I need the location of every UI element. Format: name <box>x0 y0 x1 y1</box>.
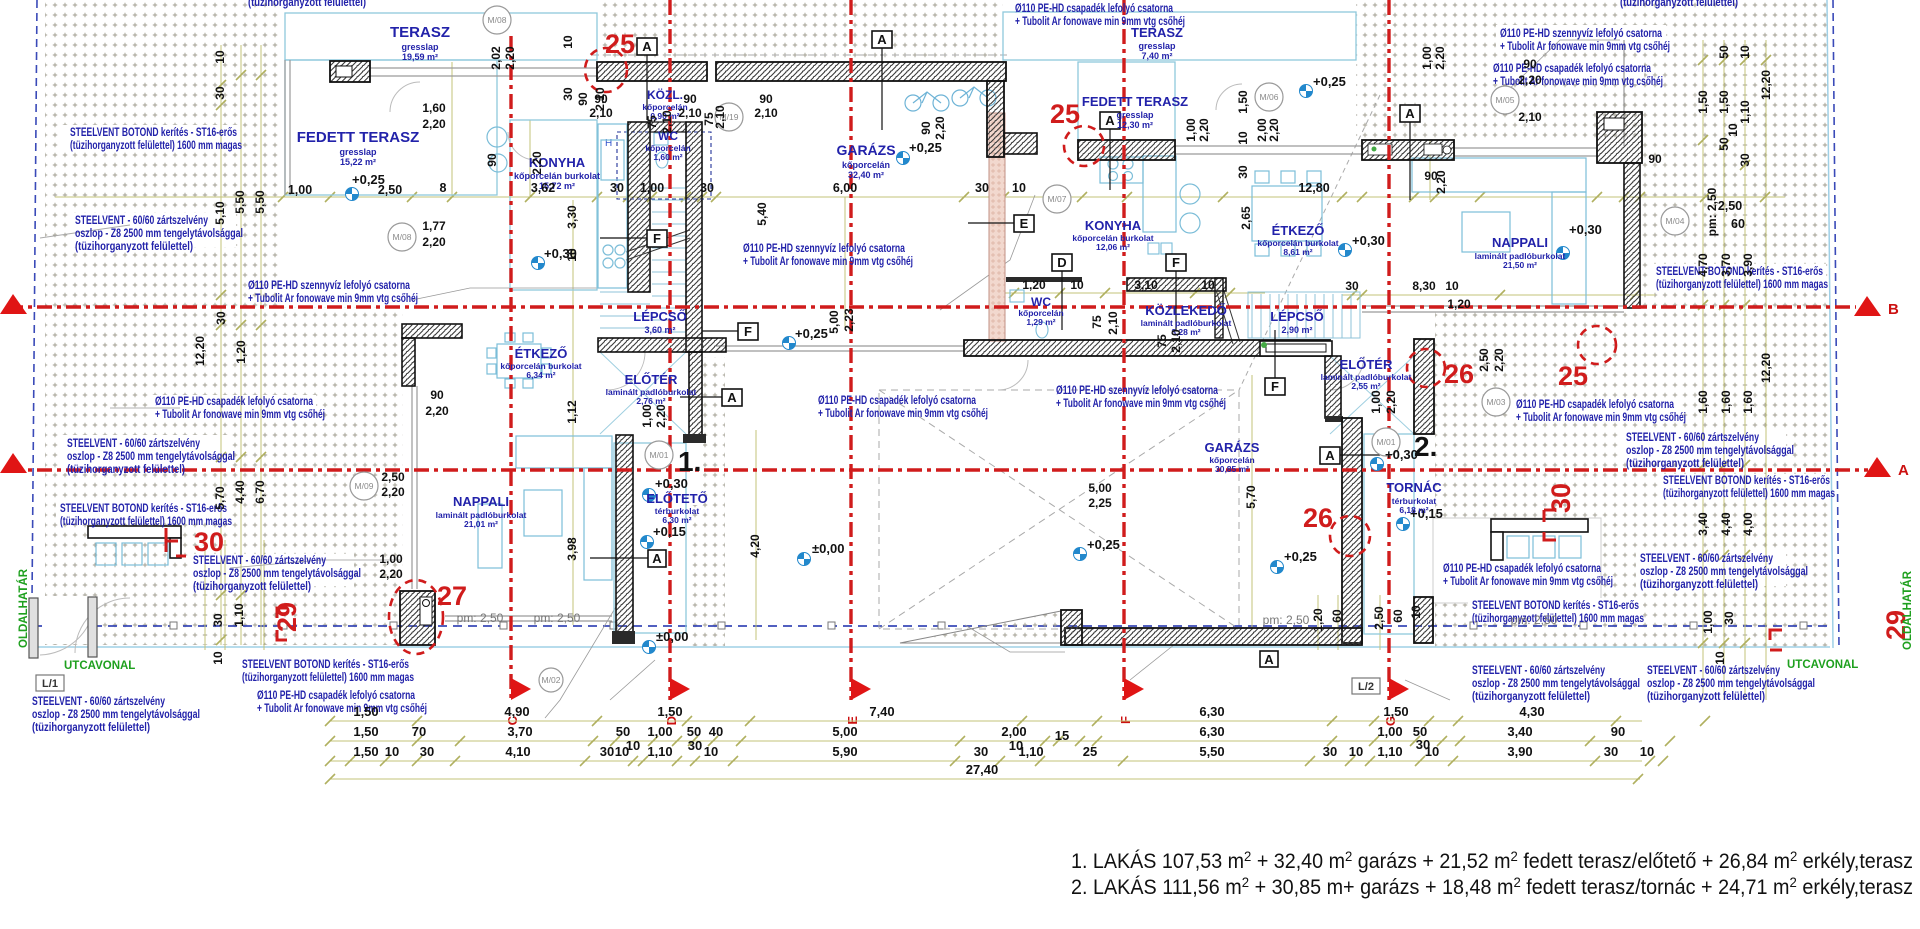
svg-text:B: B <box>1888 301 1899 318</box>
svg-text:+0,15: +0,15 <box>653 524 686 539</box>
svg-text:15,22 m²: 15,22 m² <box>340 157 376 167</box>
svg-text:3,98: 3,98 <box>565 537 579 561</box>
svg-text:2,10: 2,10 <box>660 110 674 134</box>
svg-text:90: 90 <box>683 92 697 106</box>
svg-text:2,10: 2,10 <box>678 106 702 120</box>
svg-text:oszlop - Z8 2500 mm tengelytáv: oszlop - Z8 2500 mm tengelytávolsággal <box>1626 445 1794 457</box>
svg-text:M/05: M/05 <box>1496 95 1515 105</box>
wall elöter1 north <box>598 338 726 352</box>
svg-text:3,70: 3,70 <box>507 724 532 739</box>
svg-text:90: 90 <box>759 92 773 106</box>
svg-text:10: 10 <box>1349 744 1363 759</box>
svg-text:Ø110 PE-HD csapadék lefolyó cs: Ø110 PE-HD csapadék lefolyó csatorna <box>818 395 976 407</box>
fedett terasz 1 outline <box>285 60 497 195</box>
property boundary right (blue dashed) <box>1833 0 1839 648</box>
svg-text:6,00: 6,00 <box>833 181 857 195</box>
window glazing thin lines <box>285 40 1624 621</box>
svg-text:90: 90 <box>594 92 608 106</box>
white patch text right6 <box>1636 552 1786 586</box>
svg-text:D: D <box>1057 255 1066 270</box>
stair 1 break lines <box>626 230 690 260</box>
svg-text:30: 30 <box>975 181 989 195</box>
marker circle M/04 <box>1661 207 1689 235</box>
svg-text:10: 10 <box>704 744 718 759</box>
svg-text:L/2: L/2 <box>1358 681 1374 693</box>
white patch text left2 <box>68 213 236 247</box>
svg-text:8,30: 8,30 <box>1412 279 1436 293</box>
svg-text:5,00: 5,00 <box>1088 481 1112 495</box>
detail circle 27 <box>389 580 443 654</box>
svg-text:M/08: M/08 <box>488 15 507 25</box>
svg-text:L/1: L/1 <box>42 678 58 690</box>
svg-text:Ø110 PE-HD szennyvíz lefolyó c: Ø110 PE-HD szennyvíz lefolyó csatorna <box>743 243 905 255</box>
svg-text:10: 10 <box>1640 744 1654 759</box>
svg-text:10: 10 <box>211 651 225 665</box>
white patch text left4 <box>62 435 228 473</box>
stair 2 break lines <box>1216 288 1240 344</box>
svg-text:3,40: 3,40 <box>1696 512 1710 536</box>
svg-text:30: 30 <box>1738 153 1752 167</box>
level value texts <box>352 74 1602 644</box>
svg-text:2,20: 2,20 <box>530 151 544 175</box>
svg-text:10: 10 <box>1012 181 1026 195</box>
svg-text:1,50: 1,50 <box>353 704 378 719</box>
room LÉPCSŐ1 <box>633 309 686 335</box>
svg-text:ELŐTÉR: ELŐTÉR <box>625 372 678 387</box>
svg-text:2,20: 2,20 <box>381 485 405 499</box>
note rain left <box>155 396 325 421</box>
svg-text:30: 30 <box>1236 165 1250 179</box>
svg-text:1,29 m²: 1,29 m² <box>1026 317 1055 327</box>
svg-text:pm: 2,50: pm: 2,50 <box>1705 187 1719 236</box>
svg-text:3,40: 3,40 <box>1507 724 1532 739</box>
furniture unit2 bath washers <box>1010 243 1172 338</box>
wall stair east <box>686 122 702 352</box>
white patch text right4 <box>1622 430 1786 462</box>
room WC2 <box>1018 295 1063 327</box>
svg-text:(tüzihorganyzott felülettel) 1: (tüzihorganyzott felülettel) 1600 mm mag… <box>60 516 232 528</box>
white patch text right7 <box>1468 598 1643 622</box>
window fedett terasz1 west <box>285 60 290 195</box>
konyha1 boundary <box>510 120 597 290</box>
wall wc2 partition <box>1006 277 1082 282</box>
window nappali2 top <box>1175 146 1362 154</box>
furniture unit1 wc <box>654 133 668 168</box>
svg-text:90: 90 <box>919 121 933 135</box>
right vertical dim chain <box>1702 40 1704 700</box>
svg-text:2,20: 2,20 <box>1384 390 1398 414</box>
svg-text:1,60: 1,60 <box>1696 390 1710 414</box>
svg-text:F: F <box>653 231 661 246</box>
svg-text:STEELVENT BOTOND kerítés - ST1: STEELVENT BOTOND kerítés - ST16-erős <box>70 127 237 139</box>
svg-text:1,50: 1,50 <box>353 744 378 759</box>
level marker symbols <box>346 188 359 201</box>
svg-text:F: F <box>744 324 752 339</box>
svg-text:2,10: 2,10 <box>713 105 727 129</box>
room WC1 <box>645 129 690 162</box>
svg-text:Ø110 PE-HD csapadék lefolyó cs: Ø110 PE-HD csapadék lefolyó csatorna <box>1443 563 1601 575</box>
svg-text:30: 30 <box>1345 279 1359 293</box>
box F unit2b <box>1265 330 1285 395</box>
marker circle M/03 <box>1482 388 1510 416</box>
box F stair1 <box>600 230 667 247</box>
note post right mid <box>1626 432 1794 470</box>
svg-text:oszlop - Z8 2500 mm tengelytáv: oszlop - Z8 2500 mm tengelytávolsággal <box>1640 566 1808 578</box>
svg-text:1,00: 1,00 <box>647 724 672 739</box>
svg-text:2,50: 2,50 <box>378 183 402 197</box>
svg-text:30: 30 <box>1546 483 1576 513</box>
note post bottom-left <box>32 696 200 734</box>
svg-text:M/01: M/01 <box>650 450 669 460</box>
svg-text:5,70: 5,70 <box>1244 485 1258 509</box>
svg-text:1,20: 1,20 <box>1022 278 1046 292</box>
street side boundary wall blocks <box>29 597 97 658</box>
svg-text:1,12: 1,12 <box>565 400 579 424</box>
marker circle M/09 <box>350 472 378 500</box>
svg-text:2,20: 2,20 <box>1518 73 1542 87</box>
svg-text:4,00: 4,00 <box>1741 512 1755 536</box>
svg-text:OLDALHATÁR: OLDALHATÁR <box>17 568 30 648</box>
left vertical dim chain <box>220 45 222 645</box>
svg-text:1,00: 1,00 <box>640 181 664 195</box>
room ÉTKEZŐ1 <box>500 346 581 380</box>
svg-text:kőporcelán burkolat: kőporcelán burkolat <box>514 171 600 181</box>
svg-text:STEELVENT - 60/60 zártszelvény: STEELVENT - 60/60 zártszelvény <box>193 555 326 567</box>
svg-text:1,00: 1,00 <box>379 552 403 566</box>
svg-text:M/06: M/06 <box>1260 92 1279 102</box>
note fence right A <box>1663 475 1835 500</box>
room GARÁZS1 <box>836 142 895 180</box>
svg-text:1,60: 1,60 <box>1741 390 1755 414</box>
svg-text:1,60: 1,60 <box>1719 390 1733 414</box>
svg-text:TORNÁC: TORNÁC <box>1386 480 1442 495</box>
note rain right upper <box>1493 63 1663 88</box>
svg-text:(tüzihorganyzott felülettel) 1: (tüzihorganyzott felülettel) 1600 mm mag… <box>1472 613 1644 625</box>
note rain mid1 <box>818 395 988 420</box>
street edge line bottom (light blue) <box>33 646 1830 648</box>
svg-text:pm: 2,50: pm: 2,50 <box>1263 613 1310 627</box>
note sewer mid1 <box>743 243 913 268</box>
svg-text:6,30: 6,30 <box>1199 704 1224 719</box>
box A mid1 <box>1100 112 1120 190</box>
note sewer top right <box>1500 28 1670 53</box>
note post left low <box>193 555 361 593</box>
room KONYHA2 <box>1072 218 1153 252</box>
svg-text:2,90 m²: 2,90 m² <box>1281 325 1312 335</box>
note sewer left <box>248 280 418 305</box>
furniture unit1 etkezö table <box>487 333 551 388</box>
wall step at party top <box>1004 133 1037 154</box>
svg-text:M/08: M/08 <box>393 232 412 242</box>
svg-text:5,00: 5,00 <box>827 310 841 334</box>
elöter 2 window cross <box>1330 356 1414 434</box>
svg-text:30,85 m²: 30,85 m² <box>1215 464 1249 474</box>
entry door detail unit2 <box>1260 341 1332 356</box>
svg-text:30: 30 <box>214 311 228 325</box>
svg-text:oszlop - Z8 2500 mm tengelytáv: oszlop - Z8 2500 mm tengelytávolsággal <box>1472 678 1640 690</box>
svg-text:1,60 m²: 1,60 m² <box>653 152 682 162</box>
svg-text:M/09: M/09 <box>355 481 374 491</box>
svg-text:M/02: M/02 <box>542 675 561 685</box>
svg-text:2,20: 2,20 <box>933 116 947 140</box>
svg-text:pm: 2,50: pm: 2,50 <box>534 611 581 625</box>
svg-text:3,62: 3,62 <box>531 181 555 195</box>
svg-text:2,20: 2,20 <box>1197 118 1211 142</box>
planter left seats <box>96 543 168 565</box>
svg-text:oszlop - Z8 2500 mm tengelytáv: oszlop - Z8 2500 mm tengelytávolsággal <box>75 228 243 240</box>
svg-text:40: 40 <box>709 724 723 739</box>
svg-text:A: A <box>877 32 887 47</box>
box A right <box>1400 105 1420 200</box>
section line F vertical <box>1122 0 1125 700</box>
svg-text:+0,30: +0,30 <box>1569 222 1602 237</box>
svg-text:10: 10 <box>213 50 227 64</box>
svg-text:2,10: 2,10 <box>754 106 778 120</box>
note post left mid <box>67 438 235 476</box>
svg-text:1,50: 1,50 <box>1717 90 1731 114</box>
svg-text:(tüzihorganyzott felülettel): (tüzihorganyzott felülettel) <box>67 464 185 476</box>
terrain right lower block <box>1435 310 1828 648</box>
svg-text:2,20: 2,20 <box>1434 170 1448 194</box>
svg-text:+ Tubolit Ar fonowave min 9mm: + Tubolit Ar fonowave min 9mm vtg csőhéj <box>818 408 988 420</box>
svg-text:GARÁZS: GARÁZS <box>836 142 895 158</box>
svg-text:3,90: 3,90 <box>1507 744 1532 759</box>
svg-text:Ø110 PE-HD csapadék lefolyó cs: Ø110 PE-HD csapadék lefolyó csatorna <box>1015 3 1173 15</box>
box A garage2 <box>1260 651 1278 667</box>
marker circle M/06 <box>1255 83 1283 111</box>
white patch text right2 <box>1492 62 1644 84</box>
svg-text:12,20: 12,20 <box>193 336 207 366</box>
svg-text:+ Tubolit Ar fonowave min 9mm: + Tubolit Ar fonowave min 9mm vtg csőhéj <box>155 409 325 421</box>
gray helper dashed lines <box>40 55 1380 629</box>
furniture unit1 kitchen counter <box>598 124 627 288</box>
svg-text:oszlop - Z8 2500 mm tengelytáv: oszlop - Z8 2500 mm tengelytávolsággal <box>32 709 200 721</box>
terasz 2 outline <box>1003 12 1356 60</box>
green site texts <box>17 568 1914 672</box>
svg-text:A: A <box>1898 462 1909 479</box>
window nappali1 west <box>412 386 417 589</box>
svg-text:8: 8 <box>440 181 447 195</box>
svg-text:(tüzihorganyzott felülettel): (tüzihorganyzott felülettel) <box>1626 458 1744 470</box>
svg-text:KÖZLEKEDŐ: KÖZLEKEDŐ <box>1145 303 1227 318</box>
svg-text:STEELVENT - 60/60 zártszelvény: STEELVENT - 60/60 zártszelvény <box>75 215 208 227</box>
svg-text:30: 30 <box>213 86 227 100</box>
svg-text:ÉTKEZŐ: ÉTKEZŐ <box>515 346 568 361</box>
room KONYHA1 <box>514 155 600 191</box>
svg-text:pm: 2,50: pm: 2,50 <box>1511 613 1558 627</box>
svg-text:30: 30 <box>561 87 575 101</box>
detail circle 26 lower <box>1330 516 1370 556</box>
svg-text:2,50: 2,50 <box>1477 348 1491 372</box>
box L/1 <box>36 675 64 691</box>
svg-text:Ø110 PE-HD csapadék lefolyó cs: Ø110 PE-HD csapadék lefolyó csatorna <box>1493 63 1651 75</box>
svg-text:kőporcelán: kőporcelán <box>842 160 890 170</box>
rotated dim labels left chain <box>193 50 267 665</box>
note sewer mid2 <box>1056 385 1226 410</box>
detail circle 25 top-left <box>585 48 627 92</box>
svg-text:F: F <box>1172 255 1180 270</box>
svg-text:1,10: 1,10 <box>1018 744 1043 759</box>
svg-text:12,20: 12,20 <box>1759 70 1773 100</box>
note fence bottom right <box>1472 600 1644 625</box>
svg-text:5,70: 5,70 <box>213 486 227 510</box>
room labels blue <box>297 24 1566 529</box>
wall elöter2 east <box>1414 339 1434 434</box>
svg-text:+ Tubolit Ar fonowave min 9mm: + Tubolit Ar fonowave min 9mm vtg csőhéj <box>257 703 427 715</box>
box A elötetö <box>590 550 666 567</box>
wall közl crossbar <box>650 122 686 132</box>
svg-text:75: 75 <box>1090 315 1104 329</box>
svg-text:1,00: 1,00 <box>1420 46 1434 70</box>
wall terasz1 pillar block <box>330 61 370 82</box>
svg-text:30: 30 <box>211 613 225 627</box>
note rain tornac <box>1443 563 1613 588</box>
wall elöter2 west <box>1325 356 1343 422</box>
svg-text:A: A <box>1105 113 1115 128</box>
svg-text:(tüzihorganyzott felülettel) 1: (tüzihorganyzott felülettel) 1600 mm mag… <box>242 672 414 684</box>
svg-text:10: 10 <box>1738 45 1752 59</box>
svg-text:2,10: 2,10 <box>1169 329 1183 353</box>
house number labels <box>678 431 1437 477</box>
svg-text:10: 10 <box>1236 131 1250 145</box>
section line C vertical <box>509 36 512 700</box>
marker circle M/01 <box>645 441 673 469</box>
garage1 door line <box>716 346 964 351</box>
bottom dimension numbers row3 <box>353 744 1654 759</box>
marker circle M/08 <box>483 6 511 34</box>
svg-text:3,30: 3,30 <box>565 205 579 229</box>
section arrow A right <box>1864 457 1909 479</box>
room KÖZLEKEDŐ2 <box>1141 303 1232 337</box>
svg-text:12,30 m²: 12,30 m² <box>1117 120 1153 130</box>
svg-text:2,20: 2,20 <box>654 404 668 428</box>
box F unit2 <box>1166 254 1186 330</box>
svg-text:+ Tubolit Ar fonowave min 9mm: + Tubolit Ar fonowave min 9mm vtg csőhéj <box>1516 412 1686 424</box>
detail circle 26 upper <box>1407 349 1445 387</box>
svg-text:12,20: 12,20 <box>1759 353 1773 383</box>
svg-text:30: 30 <box>1722 611 1736 625</box>
party wall pink <box>989 113 1005 341</box>
svg-text:KONYHA: KONYHA <box>1085 218 1142 233</box>
svg-text:25: 25 <box>1083 744 1097 759</box>
main horizontal dim line y197 <box>55 196 1785 198</box>
room ELŐTÉR1 <box>606 372 697 406</box>
white patch text left5 <box>56 500 231 522</box>
door swing arcs <box>40 82 1364 655</box>
svg-text:+ Tubolit Ar fonowave min 9mm: + Tubolit Ar fonowave min 9mm vtg csőhéj <box>743 256 913 268</box>
section arrow A left <box>0 453 27 473</box>
wall garage2 south <box>1061 610 1362 645</box>
svg-text:STEELVENT - 60/60 zártszelvény: STEELVENT - 60/60 zártszelvény <box>1626 432 1759 444</box>
svg-text:90: 90 <box>1523 57 1537 71</box>
svg-text:5,50: 5,50 <box>1199 744 1224 759</box>
wall kitchen/wc divider <box>628 122 650 292</box>
svg-text:STEELVENT - 60/60 zártszelvény: STEELVENT - 60/60 zártszelvény <box>32 696 165 708</box>
svg-text:21,50 m²: 21,50 m² <box>1503 260 1537 270</box>
section reference boxes <box>36 31 1420 694</box>
svg-text:19,59 m²: 19,59 m² <box>402 52 438 62</box>
svg-text:90: 90 <box>430 388 444 402</box>
svg-text:A: A <box>1405 106 1415 121</box>
svg-text:1,00: 1,00 <box>1184 118 1198 142</box>
wall terasz2 corner block <box>1597 112 1642 163</box>
svg-text:Ø110 PE-HD csapadék lefolyó cs: Ø110 PE-HD csapadék lefolyó csatorna <box>1516 399 1674 411</box>
note rain right mid <box>1516 399 1686 424</box>
svg-text:10: 10 <box>565 248 579 262</box>
svg-text:10: 10 <box>561 35 575 49</box>
wall tornac west <box>1342 418 1362 643</box>
svg-text:STEELVENT BOTOND kerítés - ST1: STEELVENT BOTOND kerítés - ST16-erős <box>1472 600 1639 612</box>
bottom dimension chain lines <box>330 721 1642 779</box>
svg-text:(tüzihorganyzott felülettel): (tüzihorganyzott felülettel) <box>248 0 366 9</box>
svg-text:+0,25: +0,25 <box>795 326 828 341</box>
svg-text:8,61 m²: 8,61 m² <box>1283 247 1312 257</box>
room TERASZ2 <box>1131 25 1183 61</box>
svg-text:5,40: 5,40 <box>755 202 769 226</box>
svg-text:ELŐTETŐ: ELŐTETŐ <box>646 491 707 506</box>
section arrow C bottom <box>505 678 531 725</box>
wall nappali2 east <box>1624 163 1640 308</box>
light blue terrace outlines <box>285 12 1414 634</box>
window nappali2 north-east <box>1454 148 1597 156</box>
svg-text:50: 50 <box>1717 137 1731 151</box>
section arrow E bottom <box>845 678 871 725</box>
svg-text:UTCAVONAL: UTCAVONAL <box>64 660 135 672</box>
marker circle M/07 <box>1043 185 1071 213</box>
svg-text:2,20: 2,20 <box>503 46 517 70</box>
svg-text:1,10: 1,10 <box>647 744 672 759</box>
svg-text:50: 50 <box>687 724 701 739</box>
svg-text:E: E <box>1020 216 1029 231</box>
chimney pillar 27 <box>400 591 435 645</box>
svg-text:(tüzihorganyzott felülettel): (tüzihorganyzott felülettel) <box>1620 0 1738 9</box>
svg-text:NAPPALI: NAPPALI <box>1492 235 1548 250</box>
svg-text:A: A <box>1264 652 1274 667</box>
svg-text:1,77: 1,77 <box>422 219 446 233</box>
svg-text:4,40: 4,40 <box>233 480 247 504</box>
marker circle M/19 <box>715 103 743 131</box>
terrain small patch near elötetö <box>688 505 725 646</box>
furniture unit2 kitchen <box>1100 156 1200 233</box>
terrain left upper <box>45 0 280 307</box>
svg-text:4,40: 4,40 <box>1719 512 1733 536</box>
wc1 detail dashed navy rect <box>617 132 711 199</box>
svg-text:90: 90 <box>1648 152 1662 166</box>
terrace2 east edge <box>1623 40 1625 146</box>
svg-text:F: F <box>1271 379 1279 394</box>
svg-text:2. LAKÁS 111,56 m2 + 30,85 m+: 2. LAKÁS 111,56 m2 + 30,85 m+ garázs + 1… <box>1071 874 1913 899</box>
svg-text:30: 30 <box>974 744 988 759</box>
svg-text:Ø110 PE-HD szennyvíz lefolyó c: Ø110 PE-HD szennyvíz lefolyó csatorna <box>248 280 410 292</box>
svg-text:+0,30: +0,30 <box>1385 447 1418 462</box>
note post right low <box>1640 553 1808 591</box>
svg-text:A: A <box>727 390 737 405</box>
svg-text:70: 70 <box>412 724 426 739</box>
svg-text:1.: 1. <box>678 446 701 477</box>
svg-text:(tüzihorganyzott felülettel) 1: (tüzihorganyzott felülettel) 1600 mm mag… <box>70 140 242 152</box>
furniture unit2 etkezö table <box>1252 171 1322 256</box>
svg-text:27: 27 <box>437 581 467 611</box>
M reference circles <box>350 6 1689 692</box>
svg-text:10: 10 <box>385 744 399 759</box>
fence posts <box>170 622 1807 629</box>
box D <box>1052 254 1072 330</box>
svg-text:3,70: 3,70 <box>1719 253 1733 277</box>
blue annotation texts <box>32 0 1835 734</box>
section arrow D bottom <box>664 678 690 725</box>
svg-text:(tüzihorganyzott felülettel): (tüzihorganyzott felülettel) <box>193 581 311 593</box>
wall fedett terasz2 top <box>1078 140 1175 160</box>
